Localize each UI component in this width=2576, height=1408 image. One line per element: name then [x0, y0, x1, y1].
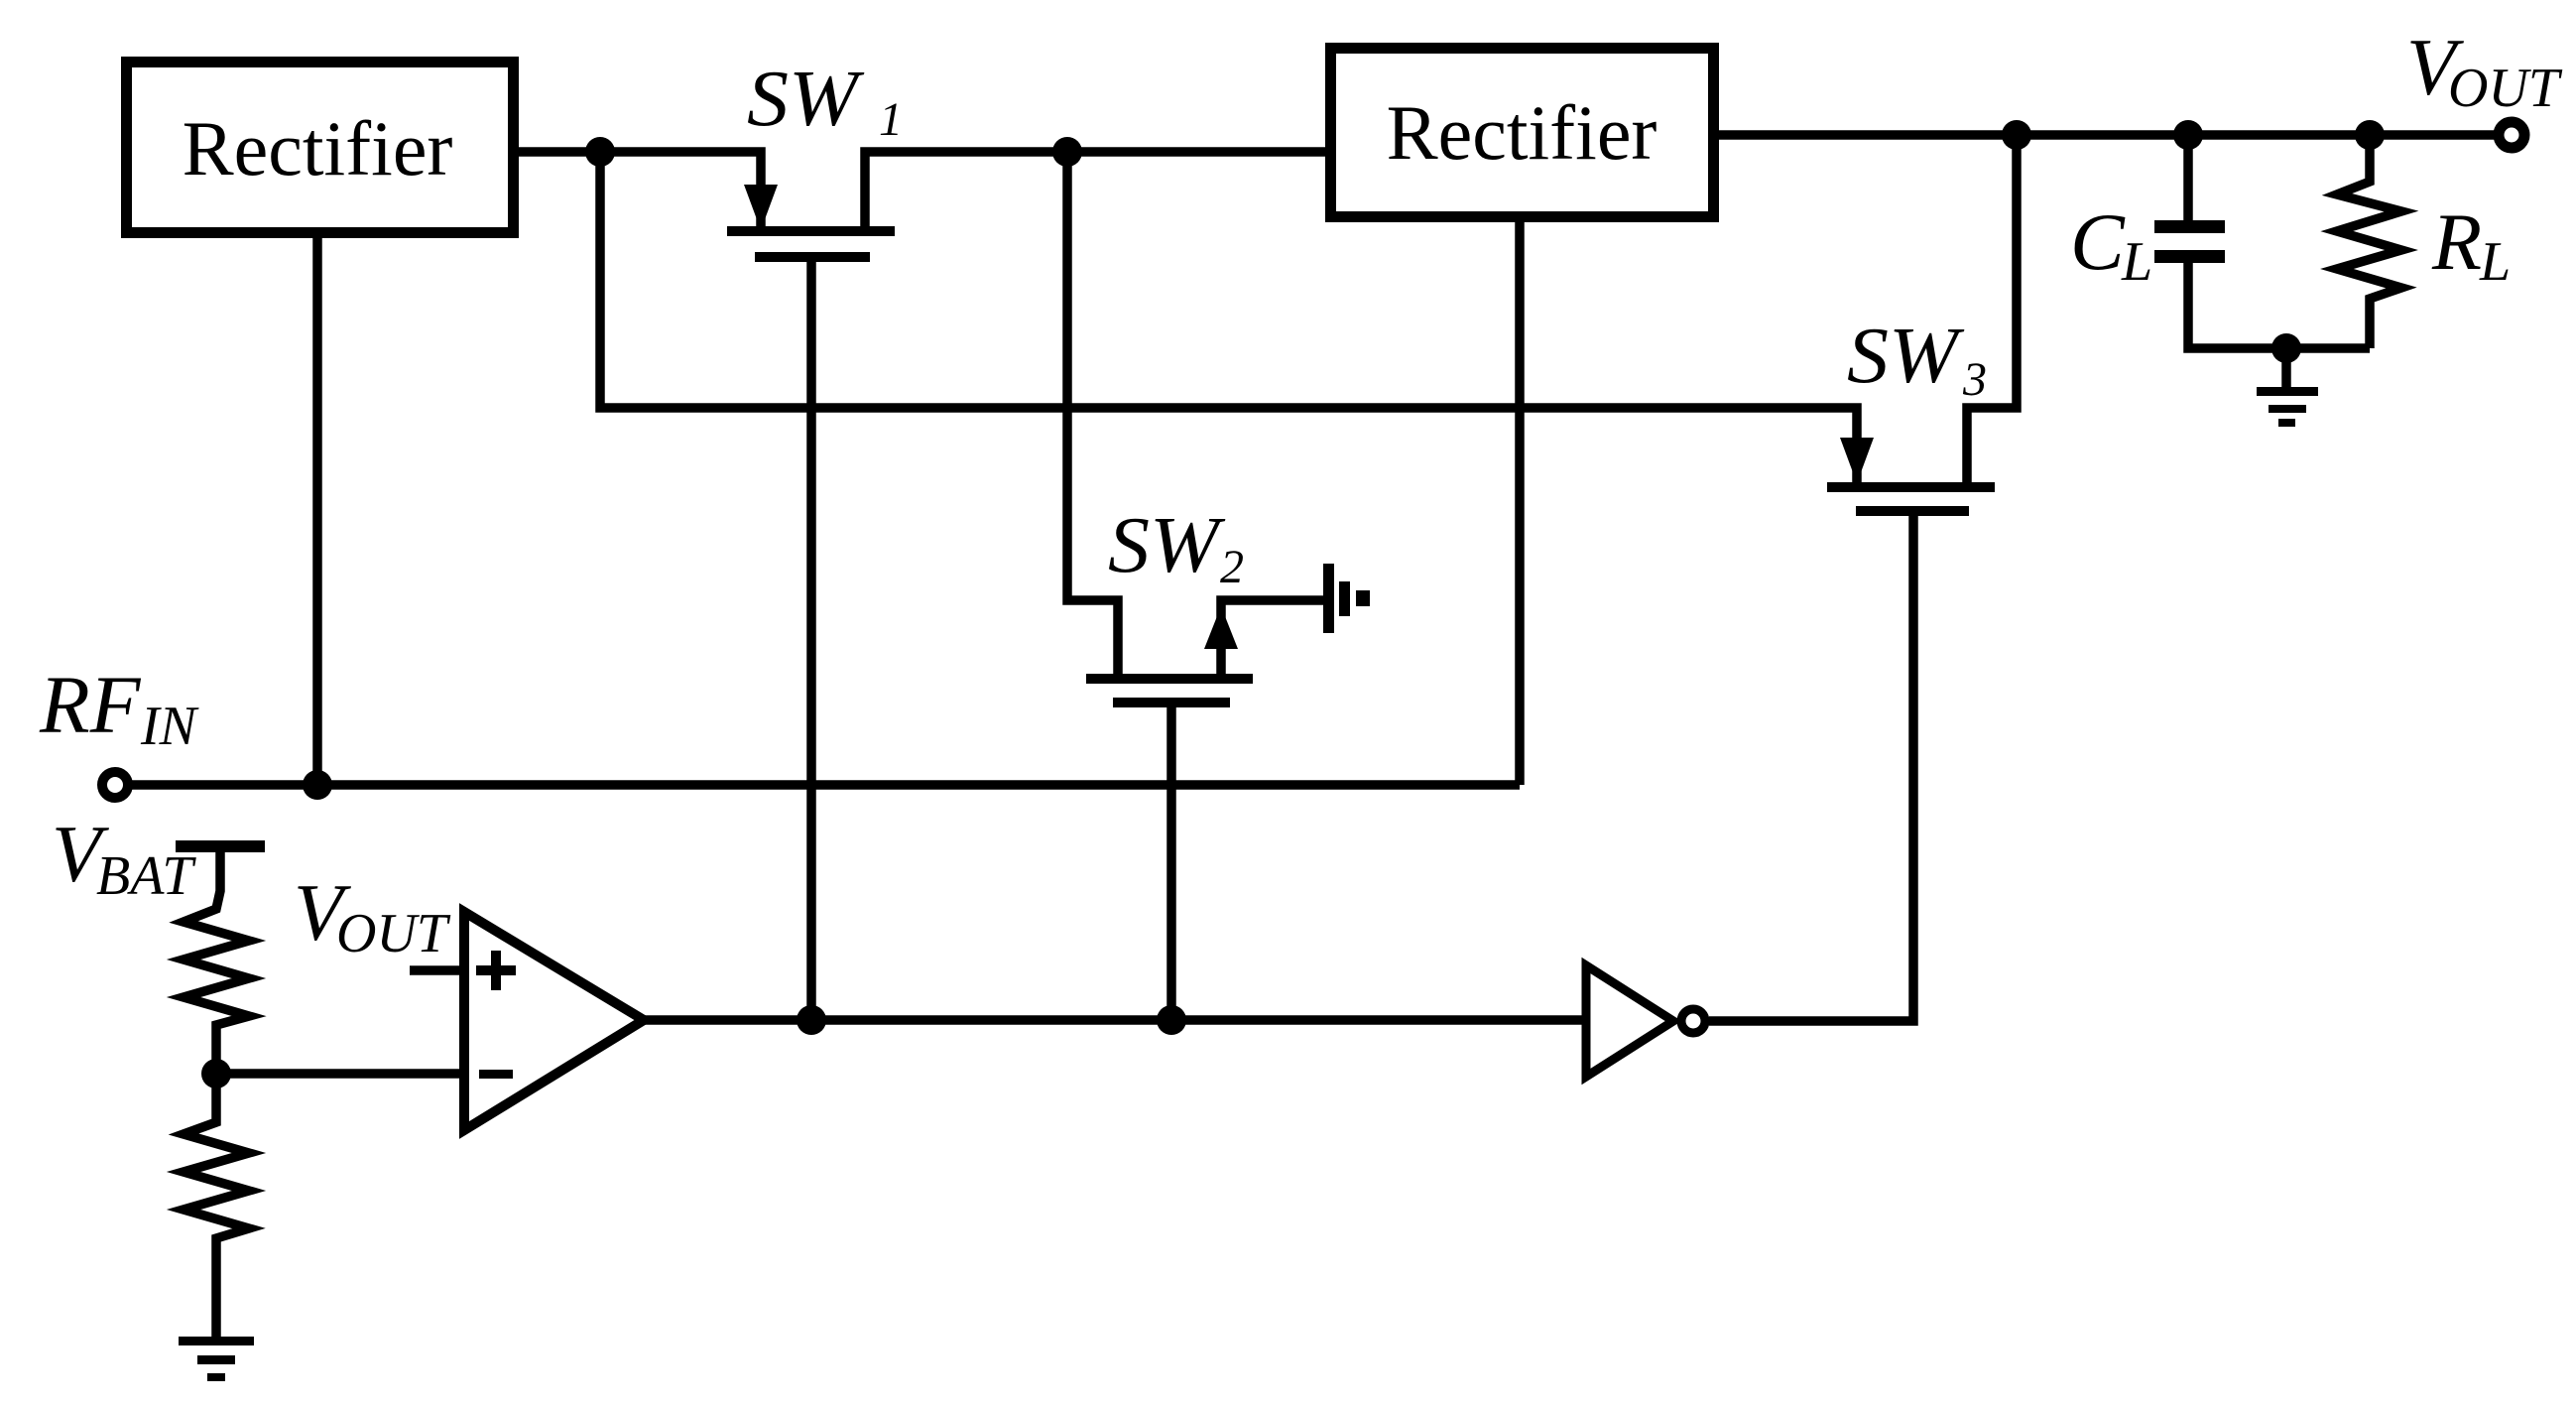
- svg-text:SW: SW: [1847, 313, 1965, 400]
- svg-text:RF: RF: [39, 659, 142, 750]
- svg-text:Rectifier: Rectifier: [183, 105, 453, 192]
- svg-text:L: L: [2479, 231, 2511, 293]
- svg-text:L: L: [2121, 231, 2152, 293]
- svg-text:IN: IN: [140, 696, 199, 757]
- svg-text:3: 3: [1962, 353, 1987, 406]
- svg-text:BAT: BAT: [96, 845, 196, 907]
- svg-text:OUT: OUT: [336, 903, 451, 964]
- svg-text:R: R: [2431, 196, 2482, 287]
- svg-text:OUT: OUT: [2448, 58, 2563, 119]
- svg-text:SW: SW: [747, 56, 865, 143]
- svg-text:1: 1: [879, 93, 903, 146]
- svg-text:2: 2: [1220, 541, 1244, 593]
- svg-text:C: C: [2070, 196, 2126, 287]
- svg-text:Rectifier: Rectifier: [1387, 89, 1657, 176]
- svg-text:SW: SW: [1108, 502, 1226, 589]
